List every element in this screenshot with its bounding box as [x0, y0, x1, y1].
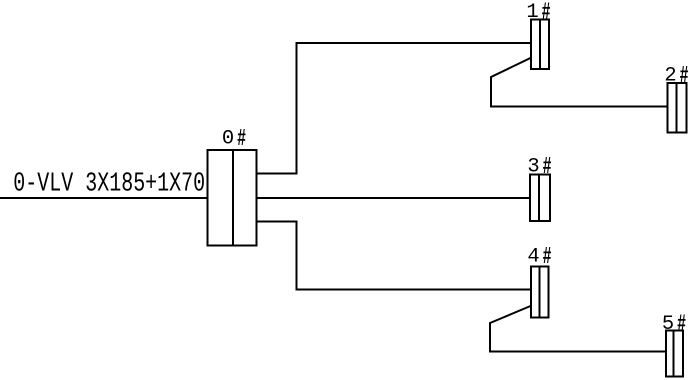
svg-text:#: # — [677, 311, 686, 339]
svg-text:0-VLV 3X185+1X70: 0-VLV 3X185+1X70 — [13, 169, 205, 200]
svg-text:3: 3 — [527, 156, 539, 179]
svg-text:#: # — [543, 154, 552, 182]
svg-text:#: # — [543, 244, 552, 272]
svg-text:2: 2 — [664, 65, 676, 88]
svg-text:5: 5 — [662, 313, 674, 336]
svg-text:1: 1 — [526, 1, 538, 24]
svg-text:#: # — [680, 63, 689, 91]
svg-text:#: # — [542, 0, 551, 27]
svg-text:4: 4 — [527, 246, 539, 269]
svg-text:#: # — [237, 126, 246, 154]
svg-text:0: 0 — [222, 128, 234, 151]
